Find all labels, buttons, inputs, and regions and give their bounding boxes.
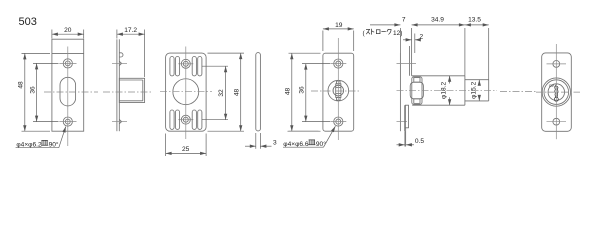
cylinder rings — [542, 78, 570, 106]
bolt assembly — [412, 77, 422, 105]
svg-text:19: 19 — [335, 22, 343, 29]
vertical centerline — [67, 47, 69, 147]
svg-text:25: 25 — [182, 146, 190, 153]
svg-text:36: 36 — [299, 86, 306, 94]
top hole — [181, 59, 190, 68]
bottom tab — [404, 105, 406, 131]
svg-text:12): 12) — [393, 30, 402, 37]
dim 36 — [302, 63, 330, 65]
svg-text:2: 2 — [419, 34, 423, 41]
svg-text:φ4×φ6.6: φ4×φ6.6 — [283, 141, 309, 148]
centerline — [397, 89, 498, 91]
plate outline — [323, 53, 354, 131]
lip curl — [119, 53, 123, 57]
bolt slot (obround) — [60, 77, 76, 106]
small cylinder — [465, 79, 489, 81]
top hole — [334, 59, 343, 68]
tube — [412, 75, 465, 77]
top dims — [399, 28, 401, 53]
plate outline — [52, 39, 84, 131]
centerline — [103, 91, 152, 93]
centerlines — [337, 38, 339, 140]
mounting tab above tube — [409, 46, 411, 76]
centerlines — [185, 47, 187, 140]
dim 19 — [322, 31, 324, 52]
big circle — [173, 79, 199, 105]
svg-text:503: 503 — [19, 16, 37, 28]
hub inner circle — [333, 85, 344, 96]
dim 17.2 — [116, 30, 118, 39]
dim 48 — [289, 52, 321, 54]
plate outline — [542, 53, 572, 131]
dim 36 — [33, 62, 59, 64]
svg-text:36: 36 — [29, 86, 36, 94]
dim 2 — [414, 34, 416, 54]
svg-text:φ15.2: φ15.2 — [471, 81, 478, 98]
hole center ticks — [397, 62, 417, 64]
bottom hole — [181, 115, 190, 124]
plate edge-on — [116, 39, 118, 131]
leader — [283, 146, 324, 148]
svg-text:φ4×φ6.2: φ4×φ6.2 — [16, 141, 42, 148]
dim 48 — [22, 52, 51, 54]
horizontal centerline — [44, 91, 98, 93]
svg-text:32: 32 — [218, 89, 225, 97]
countersink notches — [119, 61, 121, 65]
svg-text:17.2: 17.2 — [124, 27, 137, 34]
svg-text:90°: 90° — [316, 140, 326, 148]
slots top — [170, 57, 174, 76]
leader — [16, 147, 59, 149]
svg-text:48: 48 — [18, 81, 25, 89]
svg-text:3: 3 — [273, 140, 277, 147]
hub outer circle — [328, 80, 349, 101]
dim 48 — [208, 52, 245, 54]
keyway — [555, 86, 558, 98]
svg-text:48: 48 — [233, 89, 240, 97]
svg-text:34.9: 34.9 — [431, 17, 444, 24]
face plate front — [399, 53, 401, 131]
dim 0.5 — [404, 131, 406, 146]
bend line — [52, 52, 84, 54]
svg-text:0.5: 0.5 — [415, 138, 424, 145]
svg-text:20: 20 — [64, 27, 72, 34]
top countersunk hole — [63, 59, 72, 68]
centerlines — [555, 44, 557, 139]
bottom hole — [553, 118, 560, 125]
dust box — [119, 78, 144, 102]
dia 15.2 — [478, 80, 480, 84]
tailpiece — [336, 84, 341, 98]
svg-text:7: 7 — [402, 17, 406, 24]
dia 18.2 — [449, 76, 451, 84]
svg-text:90°: 90° — [49, 140, 59, 148]
dim 25 — [165, 134, 167, 157]
dim 20 — [51, 30, 53, 39]
svg-text:13.5: 13.5 — [468, 17, 481, 24]
slots bottom — [170, 110, 174, 129]
bottom hole — [334, 117, 343, 126]
svg-text:φ18.2: φ18.2 — [440, 82, 447, 99]
bottom countersunk hole — [63, 117, 72, 126]
top hole — [553, 61, 560, 68]
svg-text:48: 48 — [285, 88, 292, 96]
projection line — [288, 130, 319, 132]
dim 32 — [202, 65, 228, 67]
dim 3 — [255, 133, 257, 149]
hole center ticks — [112, 62, 127, 64]
plate outline — [166, 53, 207, 131]
